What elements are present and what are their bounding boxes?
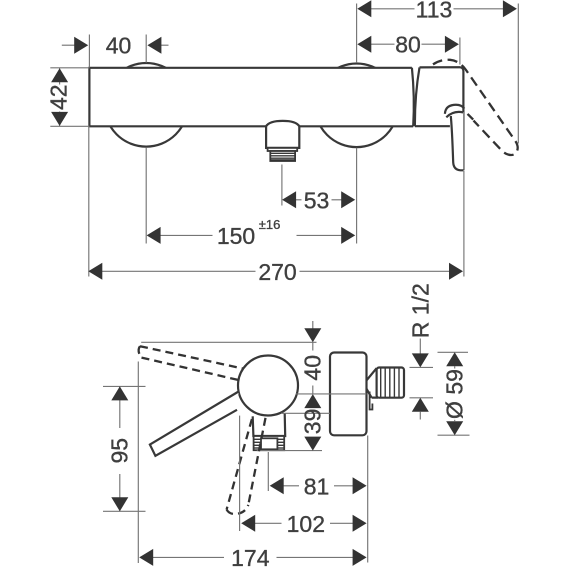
- dim 42 left: [50, 67, 89, 69]
- node left mounting circle (escutcheon): [104, 63, 188, 147]
- hose nut: [254, 436, 285, 450]
- svg-text:150: 150: [217, 223, 255, 249]
- solid lever (side, down-left): [150, 392, 239, 456]
- svg-text:113: 113: [416, 0, 453, 22]
- svg-text:42: 42: [45, 84, 71, 110]
- outlet stub below knob: [253, 413, 286, 436]
- dim dia 59: [438, 351, 469, 353]
- dim 102: [239, 416, 241, 531]
- svg-text:102: 102: [287, 511, 325, 537]
- svg-text:R 1/2: R 1/2: [408, 283, 434, 338]
- lever dashed down position (side): [227, 418, 266, 514]
- dim 53: [281, 165, 283, 206]
- threaded nipple R1/2: [377, 368, 404, 398]
- body escutcheon side view rect: [330, 353, 367, 436]
- outlet nipple bottom center: [266, 121, 299, 148]
- dim 174: [137, 362, 139, 564]
- inlet centerline: [296, 393, 366, 395]
- small tab below cone: [370, 392, 373, 410]
- svg-text:174: 174: [231, 545, 270, 568]
- svg-text:270: 270: [258, 259, 296, 285]
- bar right end cap: [412, 68, 414, 127]
- lever handle solid (down position): [451, 112, 464, 170]
- stem lower line: [281, 412, 330, 414]
- dim 270: [88, 127, 90, 277]
- node right mounting circle (escutcheon): [315, 64, 399, 148]
- svg-text:80: 80: [395, 32, 421, 58]
- dim 150 +-16: [145, 148, 147, 244]
- inlet cone: [366, 368, 378, 398]
- wall reference line: [141, 341, 316, 343]
- dim 80: [459, 38, 461, 65]
- dim 40 top: [88, 35, 90, 68]
- dim 40/39 stack: [312, 321, 314, 329]
- svg-text:95: 95: [106, 438, 132, 464]
- svg-text:53: 53: [304, 187, 330, 213]
- dim 113: [356, 4, 358, 63]
- dim 81: [267, 452, 269, 491]
- valve module escutcheon right: [415, 67, 464, 170]
- svg-text:39: 39: [300, 409, 326, 435]
- lever handle dashed (up position): [433, 60, 518, 155]
- svg-text:40: 40: [300, 355, 326, 381]
- svg-text:Ø 59: Ø 59: [442, 369, 468, 419]
- lever dashed up position (side): [139, 346, 244, 380]
- svg-text:81: 81: [304, 473, 330, 499]
- svg-text:±16: ±16: [259, 217, 281, 232]
- mixer body bar: [89, 68, 411, 127]
- handle knob circle (side): [238, 356, 298, 416]
- lever cap inner arc: [446, 112, 463, 117]
- svg-text:40: 40: [106, 33, 132, 59]
- lever cap outer arc: [445, 105, 464, 114]
- dim 95: [103, 385, 146, 387]
